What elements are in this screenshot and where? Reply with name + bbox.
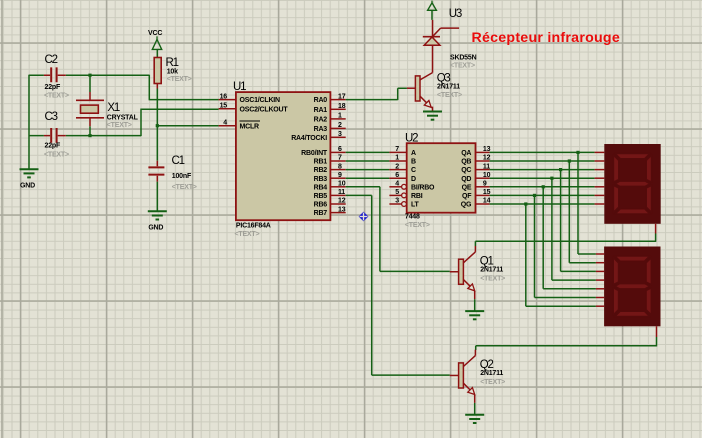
svg-text:RA1: RA1: [314, 107, 328, 114]
ground (Q3 emitter): [423, 111, 442, 113]
svg-text:B: B: [411, 159, 416, 166]
svg-text:BI/RBO: BI/RBO: [411, 184, 435, 191]
transistor Q3 2N1711: [415, 76, 420, 101]
svg-text:16: 16: [220, 93, 228, 100]
U1 pin RB3 (9): [330, 177, 345, 179]
wire net QC to display pins: [490, 169, 595, 171]
svg-text:3: 3: [395, 198, 399, 205]
svg-text:9: 9: [483, 181, 487, 188]
svg-text:Récepteur infrarouge: Récepteur infrarouge: [472, 30, 620, 46]
svg-text:2N1711: 2N1711: [480, 267, 503, 274]
wire display2 common to Q2 collector: [656, 326, 658, 337]
U2 pin B (1): [389, 160, 406, 162]
svg-text:RA2: RA2: [314, 117, 328, 124]
svg-text:15: 15: [483, 189, 491, 196]
svg-text:C1: C1: [172, 155, 185, 167]
U2 pin QF (15): [476, 194, 490, 196]
chip U2 7448: [407, 143, 476, 213]
svg-text:C2: C2: [45, 54, 58, 66]
wire RB1 to U2: [346, 160, 390, 162]
svg-text:6: 6: [338, 146, 342, 153]
svg-text:A: A: [411, 150, 416, 157]
U1 pin RA2 (1): [330, 118, 345, 120]
wire RA0 to Q3 base: [346, 88, 407, 100]
U2 pin QD (10): [476, 177, 490, 179]
svg-text:10: 10: [483, 172, 491, 179]
svg-text:<TEXT>: <TEXT>: [44, 151, 69, 158]
svg-text:<TEXT>: <TEXT>: [235, 231, 260, 238]
svg-text:4: 4: [223, 119, 227, 126]
wire RB5 to Q2 base: [346, 195, 450, 375]
svg-text:4: 4: [395, 181, 399, 188]
power arrow above U3: [431, 1, 433, 3]
svg-text:10: 10: [338, 181, 346, 188]
wire net QF to display pins: [490, 194, 595, 196]
svg-text:3: 3: [338, 131, 342, 138]
wire C1 to ground: [156, 182, 158, 212]
svg-text:QC: QC: [461, 167, 471, 174]
svg-text:11: 11: [483, 163, 490, 170]
wire left vertical bus C2/C3 to ground: [28, 75, 30, 170]
U1 pin RB0-INT (6): [330, 151, 345, 153]
svg-text:QA: QA: [461, 150, 471, 157]
U2 pin RBI (5): [389, 194, 401, 196]
svg-text:D: D: [411, 176, 416, 183]
svg-text:11: 11: [338, 189, 345, 196]
svg-text:7: 7: [338, 155, 342, 162]
svg-text:15: 15: [220, 102, 228, 109]
wire R1 to MCLR and C1: [156, 89, 158, 161]
op chip U1 PIC16F84A: [236, 92, 331, 220]
svg-text:12: 12: [483, 155, 491, 162]
svg-text:<TEXT>: <TEXT>: [480, 379, 505, 386]
U1 pin RB1 (7): [330, 160, 345, 162]
node X1 bottom: [89, 126, 91, 136]
svg-text:QF: QF: [462, 193, 472, 200]
U2 pin BI-RBO (4): [389, 186, 401, 188]
U2 pin C (2): [389, 169, 406, 171]
svg-text:7448: 7448: [405, 214, 420, 221]
U1 pin RB5 (11): [330, 194, 345, 196]
svg-text:13: 13: [338, 206, 346, 213]
svg-text:1: 1: [338, 113, 342, 120]
svg-text:100nF: 100nF: [172, 173, 192, 180]
svg-text:10k: 10k: [167, 68, 178, 75]
svg-text:<TEXT>: <TEXT>: [107, 122, 132, 129]
U2 pin QC (11): [476, 169, 490, 171]
svg-text:RB6: RB6: [314, 202, 328, 209]
transistor Q1 2N1711: [459, 259, 464, 284]
svg-text:8: 8: [338, 163, 342, 170]
svg-text:<TEXT>: <TEXT>: [480, 276, 505, 283]
svg-text:13: 13: [483, 146, 491, 153]
svg-text:QB: QB: [461, 159, 471, 166]
wire OSC2 route: [140, 109, 218, 136]
crystal X1: [89, 92, 91, 126]
U2 pin A (7): [389, 151, 406, 153]
svg-text:QE: QE: [462, 184, 472, 191]
marker blue move icon: [359, 212, 369, 222]
svg-text:RB7: RB7: [314, 210, 328, 217]
svg-text:<TEXT>: <TEXT>: [167, 76, 192, 83]
svg-text:22pF: 22pF: [45, 84, 61, 91]
svg-text:<TEXT>: <TEXT>: [405, 222, 430, 229]
svg-text:1: 1: [395, 155, 399, 162]
node X1 top: [89, 75, 91, 92]
svg-text:12: 12: [338, 198, 346, 205]
svg-text:R1: R1: [166, 57, 179, 69]
U1 pin RA3 (2): [330, 127, 345, 129]
svg-text:OSC2/CLKOUT: OSC2/CLKOUT: [240, 106, 289, 113]
display 2 (7-seg): [604, 247, 660, 327]
svg-text:C: C: [411, 167, 416, 174]
capacitor C2: [44, 74, 66, 76]
U1 pin RA0 (17): [330, 99, 345, 101]
U2 pin LT (3): [389, 203, 401, 205]
U1 pin RB4 (10): [330, 186, 345, 188]
capacitor C3: [44, 135, 66, 137]
svg-text:<TEXT>: <TEXT>: [44, 93, 69, 100]
U2 pin QE (9): [476, 186, 490, 188]
svg-text:7: 7: [395, 146, 399, 153]
U1 pin RA1 (18): [330, 108, 345, 110]
svg-text:GND: GND: [20, 182, 35, 189]
wire RB4 to Q1 base: [346, 187, 450, 272]
svg-text:2: 2: [395, 163, 399, 170]
svg-text:RB3: RB3: [314, 176, 328, 183]
svg-text:VCC: VCC: [148, 30, 162, 37]
svg-text:MCLR: MCLR: [240, 123, 260, 130]
svg-text:GND: GND: [148, 225, 163, 232]
wire C3 row: [29, 135, 141, 137]
wire net QG to display pins: [490, 203, 595, 205]
svg-text:QG: QG: [461, 202, 472, 209]
wire C2 row: [29, 74, 149, 76]
transistor Q2 2N1711: [459, 363, 464, 388]
svg-text:<TEXT>: <TEXT>: [450, 63, 475, 70]
resistor R1: [154, 58, 161, 84]
svg-text:RB0/INT: RB0/INT: [301, 150, 328, 157]
svg-text:<TEXT>: <TEXT>: [437, 92, 462, 99]
svg-text:6: 6: [395, 172, 399, 179]
ground: [148, 210, 167, 212]
wire display1 common to Q1 collector: [655, 224, 657, 234]
U1 pin RB7 (13): [330, 212, 345, 214]
wire RB3 to U2: [346, 177, 390, 179]
svg-text:5: 5: [395, 189, 399, 196]
svg-text:14: 14: [483, 198, 491, 205]
wire RB2 to U2: [346, 169, 390, 171]
svg-text:SKD55N: SKD55N: [450, 55, 477, 62]
wire net QD to display pins: [490, 177, 595, 179]
svg-text:22pF: 22pF: [45, 143, 61, 150]
svg-text:RB5: RB5: [314, 193, 328, 200]
U1 pin RB2 (8): [330, 169, 345, 171]
U1 pin MCLR (4): [219, 125, 236, 127]
wire net QA to display pins: [490, 151, 595, 153]
svg-text:18: 18: [338, 103, 346, 110]
display 1 (7-seg): [604, 144, 660, 224]
U1 pin OSC2-CLKOUT (15): [219, 108, 236, 110]
svg-text:RA0: RA0: [314, 97, 328, 104]
svg-text:CRYSTAL: CRYSTAL: [107, 115, 139, 122]
svg-text:C3: C3: [45, 111, 58, 123]
wire net QE to display pins: [490, 186, 595, 188]
svg-text:RBI: RBI: [411, 193, 423, 200]
svg-text:2N1711: 2N1711: [480, 370, 503, 377]
U2 pin QB (12): [476, 160, 490, 162]
svg-text:PIC16F84A: PIC16F84A: [236, 223, 271, 230]
svg-text:U2: U2: [405, 133, 418, 145]
U2 pin QG (14): [476, 203, 490, 205]
svg-text:RA4/TOCKI: RA4/TOCKI: [291, 135, 327, 142]
svg-text:<TEXT>: <TEXT>: [172, 184, 197, 191]
U1 pin OSC1-CLKIN (16): [219, 99, 236, 101]
svg-text:OSC1/CLKIN: OSC1/CLKIN: [240, 97, 281, 104]
svg-text:QD: QD: [461, 176, 471, 183]
svg-text:U1: U1: [233, 81, 246, 93]
svg-text:2N1711: 2N1711: [437, 84, 460, 91]
U2 pin QA (13): [476, 151, 490, 153]
wire OSC1 route: [149, 75, 219, 100]
svg-text:X1: X1: [107, 102, 119, 114]
svg-text:U3: U3: [449, 8, 462, 20]
ground: [20, 168, 39, 170]
capacitor C1: [156, 161, 158, 182]
svg-text:2: 2: [338, 122, 342, 129]
wire VCC to R1: [156, 49, 158, 57]
svg-text:9: 9: [338, 172, 342, 179]
U1 pin RB6 (12): [330, 203, 345, 205]
U2 pin D (6): [389, 177, 406, 179]
svg-text:RB2: RB2: [314, 167, 328, 174]
svg-text:17: 17: [338, 93, 346, 100]
svg-text:RB4: RB4: [314, 184, 328, 191]
U1 pin RA4-TOCKI (3): [330, 136, 345, 138]
svg-text:RB1: RB1: [314, 159, 328, 166]
svg-text:RA3: RA3: [314, 126, 328, 133]
svg-text:LT: LT: [411, 202, 420, 209]
wire RB0 to U2: [346, 151, 390, 153]
wire net QB to display pins: [490, 160, 595, 162]
